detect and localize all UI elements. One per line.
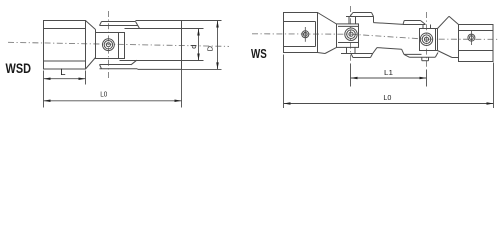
link yoke1 bottom left chamfer (351, 54, 353, 58)
WS yoke1 bearing lug left (346, 47, 348, 53)
WS right cylinder bore top (459, 30, 494, 32)
dimension L arrow left (44, 77, 51, 80)
svg-text:D: D (205, 45, 214, 51)
yoke bottom face left chamfer (100, 65, 102, 69)
dimension L0 right extension left (283, 55, 285, 109)
link yoke1 bottom right edge (373, 48, 377, 54)
joint2 bearing inner (424, 37, 428, 41)
link yoke2 top right chamfer (421, 21, 426, 25)
WS left cylinder bore top (284, 21, 316, 23)
link yoke1 top face lower (346, 16, 374, 18)
WS left cylinder outline (284, 13, 318, 53)
dimension L0 right arrow right (487, 102, 494, 105)
WS right pin hole crosshair (470, 30, 472, 45)
dimension L1 arrow left (351, 77, 358, 80)
left sleeve bore top (44, 28, 86, 30)
svg-text:WSD: WSD (6, 60, 32, 76)
dimension D line (217, 21, 219, 70)
dimension L line (44, 78, 86, 80)
WS right cylinder outline (459, 25, 494, 62)
centerline vertical joint2 (426, 12, 428, 70)
svg-text:L1: L1 (384, 68, 393, 77)
link waist top (374, 23, 404, 25)
dimension L extension right (85, 71, 87, 85)
right cylinder top edge (136, 20, 182, 22)
WS left pin hole crosshair (304, 27, 306, 42)
yoke ear left edge upper (95, 30, 97, 33)
WS right shaft pin hole inner (470, 36, 474, 40)
WS yoke2 flare bottom chamfer (438, 51, 453, 58)
centerline horizontal WSD (8, 42, 229, 46)
dimension D extension bottom (182, 68, 222, 70)
right cylinder bore top (125, 28, 182, 30)
link yoke1 bottom face upper (341, 53, 373, 55)
centerline vertical joint WSD (108, 11, 110, 78)
joint1 bearing outer (345, 28, 357, 40)
dimension d arrow bottom (197, 54, 200, 61)
link yoke1 bottom right chamfer (371, 54, 373, 58)
WS left cylinder bore bottom (284, 46, 316, 48)
link yoke1 top face left chamfer (350, 13, 353, 17)
link yoke2 top left edge (403, 21, 404, 25)
centerline left shaft WS (252, 33, 351, 35)
WS yoke1 flare bottom chamfer (325, 47, 337, 53)
link yoke1 bottom face lower (353, 57, 371, 59)
WS yoke1 ear inner bottom (338, 42, 359, 44)
dimension L1 extension left (350, 64, 352, 87)
right cylinder bore bottom (120, 60, 182, 62)
WS yoke1 flare top chamfer (318, 13, 337, 25)
dimension D arrow top (216, 21, 219, 28)
link yoke2 top face lower (403, 24, 426, 26)
dimension L0 extension left (43, 85, 45, 108)
bearing cup edge (118, 33, 120, 59)
WS yoke2 cup edge (435, 29, 437, 51)
yoke top face left chamfer (100, 22, 102, 26)
yoke bottom face lower line (100, 68, 138, 70)
joint2 bottom lug cap (422, 60, 429, 62)
yoke top face lower line (100, 25, 138, 27)
link yoke1 top face upper (353, 12, 372, 14)
WS yoke2 flare top return (449, 16, 459, 24)
joint1 bearing middle (347, 30, 356, 39)
svg-text:WS: WS (251, 46, 267, 61)
dimension L0 right arrow left (284, 102, 291, 105)
joint1 bearing inner (349, 32, 353, 36)
link yoke2 top face upper (404, 20, 420, 22)
yoke top face upper line (102, 21, 136, 23)
dimension L0 right line (284, 103, 494, 105)
svg-text:L0: L0 (100, 90, 107, 99)
centerline link WS (351, 34, 427, 39)
dimension L0 right extension right (493, 63, 495, 109)
link yoke2 bottom left edge (402, 49, 404, 54)
dimension D arrow bottom (216, 62, 219, 69)
dimension d extension bottom (182, 60, 204, 62)
link yoke2 bottom left chamfer (404, 54, 410, 57)
dimension L0 arrow right (175, 100, 182, 103)
bearing circle inner (106, 43, 110, 47)
centerline right shaft WS (427, 38, 499, 40)
yoke chamfer top-left (86, 21, 96, 30)
WS yoke1 top lug right (355, 17, 357, 24)
dimension L0 line (44, 100, 182, 102)
bearing circle middle (104, 41, 112, 49)
WS yoke1 bottom edge extension (318, 53, 326, 54)
dimension L1 line (351, 77, 427, 79)
dimension L0 arrow left (44, 100, 51, 103)
joint2 bottom lug left (421, 57, 423, 60)
dimension D extension top (182, 20, 222, 22)
dimension L extension left (43, 71, 45, 85)
dimension d extension top (182, 28, 204, 30)
link yoke1 top right shoulder (372, 13, 374, 17)
yoke top face right chamfer (136, 22, 140, 29)
dimension d arrow top (197, 29, 200, 36)
dimension L1 extension right (426, 70, 428, 87)
WS yoke1 ear inner top (338, 25, 359, 27)
yoke chamfer bottom-left (86, 58, 96, 70)
link yoke1 top face right edge (373, 17, 375, 23)
WS yoke1 bearing lug right (354, 47, 356, 53)
link yoke1 face left edge (348, 17, 350, 24)
WS left shaft pin hole inner (303, 32, 307, 36)
WS yoke2 ear outline (420, 29, 438, 51)
WS yoke2 flare top chamfer (438, 16, 450, 28)
left sleeve outline (44, 21, 86, 70)
dimension L0 extension right (181, 70, 183, 108)
yoke ear outline (96, 33, 125, 59)
right cylinder bottom edge (138, 68, 182, 70)
link yoke2 bottom right chamfer (435, 53, 438, 58)
WS right cylinder bore bottom (459, 50, 494, 52)
dimension L arrow right (79, 77, 86, 80)
joint2 bottom lug right (428, 57, 430, 60)
yoke bottom face upper line (100, 64, 132, 66)
WS left cylinder inner edge (315, 22, 317, 47)
WS yoke2 top lug right (430, 25, 432, 29)
bearing circle outer (103, 39, 115, 51)
WS yoke2 flare bottom shelf (452, 57, 459, 59)
dimension d line (198, 29, 200, 61)
link yoke2 bottom face lower (410, 56, 436, 58)
joint2 bearing outer (420, 33, 432, 45)
centerline vertical joint1 (350, 6, 352, 64)
yoke bottom face right chamfer (131, 60, 137, 65)
joint2 bearing middle (422, 35, 431, 44)
right cylinder right edge (181, 21, 183, 70)
svg-text:d: d (189, 45, 198, 49)
WS left shaft pin hole outer (302, 31, 309, 38)
link yoke2 bottom face upper (404, 53, 422, 55)
left sleeve bore bottom (44, 60, 86, 62)
WS right shaft pin hole outer (468, 34, 475, 41)
link waist bottom (377, 48, 402, 50)
dimension L1 arrow right (420, 77, 427, 80)
svg-text:L0: L0 (383, 93, 391, 102)
WS yoke2 top lug left (422, 25, 424, 29)
svg-text:L: L (60, 67, 65, 78)
WS yoke1 ear outline (337, 24, 359, 48)
